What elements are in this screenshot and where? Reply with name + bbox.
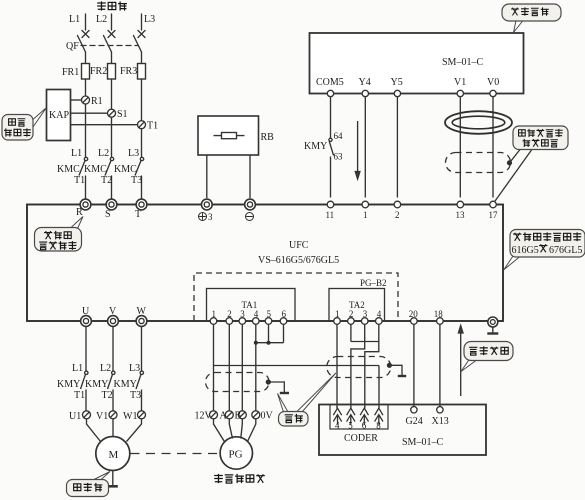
terminal minus: [245, 199, 256, 210]
svg-text:5: 5: [348, 421, 353, 431]
CODER pin 6 arrows: [360, 408, 368, 424]
wire L2 vertical top: [111, 14, 113, 198]
breaker QF pole 3 x-mark: [138, 31, 145, 38]
signal direction arrow (up): [460, 333, 462, 396]
contactor KMC pole 3: [140, 157, 143, 160]
wire TA1-4 to 0V: [255, 325, 257, 411]
terminal Y5: [394, 90, 400, 96]
svg-text:PG: PG: [229, 449, 243, 461]
wire V1 to motor: [112, 419, 114, 437]
breaker QF pole 1 blade: [78, 36, 86, 53]
svg-text:T1: T1: [74, 390, 85, 401]
svg-text:R1: R1: [91, 96, 103, 107]
svg-text:T: T: [135, 209, 141, 220]
svg-text:PG–B2: PG–B2: [360, 278, 387, 288]
svg-text:QF: QF: [66, 41, 79, 52]
callout 电动机 (motor): [67, 472, 111, 497]
svg-text:S1: S1: [117, 109, 128, 120]
terminal TA1-2: [226, 318, 233, 325]
tap R1 circle: [82, 96, 90, 104]
svg-text:VS–616G5/676GL5: VS–616G5/676GL5: [258, 255, 339, 266]
motor ground wire: [112, 471, 114, 486]
wire KMY to W1 connector: [141, 390, 143, 411]
svg-text:Y4: Y4: [359, 77, 371, 88]
svg-text:M: M: [109, 449, 119, 461]
connector A circle: [225, 411, 233, 419]
svg-text:63: 63: [334, 152, 344, 162]
breaker QF pole 1 x-mark: [82, 31, 89, 38]
svg-text:Y5: Y5: [391, 77, 403, 88]
connector U1 circle: [83, 411, 91, 419]
wire L3 vertical top: [141, 14, 143, 198]
terminal TA1-5: [265, 318, 272, 325]
svg-text:L1: L1: [69, 14, 80, 25]
wire Y4 to 1: [364, 97, 366, 198]
terminal 2: [394, 201, 401, 208]
svg-text:8: 8: [376, 421, 381, 431]
connector W1 circle: [138, 411, 146, 419]
shield stadium (dashed) around V1 V0: [446, 150, 532, 203]
svg-text:CODER: CODER: [344, 433, 378, 444]
shield TA2 ground hook: [389, 365, 402, 375]
svg-text:64: 64: [334, 131, 344, 141]
label 主电源 (main power): [97, 1, 127, 10]
connector TA2 box: [329, 289, 385, 322]
svg-text:T1: T1: [147, 121, 158, 132]
terminal V1: [457, 90, 463, 96]
wire TA2-3 drop and jog: [351, 325, 365, 409]
junction dot TA1-5: [267, 341, 271, 345]
svg-text:COM5: COM5: [316, 77, 344, 88]
terminal TA1-4: [253, 318, 260, 325]
breaker QF linkage (dashed): [81, 45, 138, 47]
terminal TA1-1: [210, 318, 217, 325]
CODER pin 8 arrows: [375, 408, 383, 424]
thermal relay FR1: [82, 64, 90, 80]
terminal TA2-1: [334, 318, 341, 325]
tap S1 circle: [108, 109, 116, 117]
svg-text:KMY: KMY: [57, 379, 80, 390]
junction bus 4-5-6: [256, 342, 284, 344]
terminal G24: [411, 407, 417, 413]
svg-text:676GL5: 676GL5: [549, 245, 582, 256]
svg-text:L2: L2: [98, 148, 109, 159]
svg-text:W1: W1: [123, 411, 137, 422]
svg-text:KAP: KAP: [49, 110, 69, 121]
contactor KMY pole 1: [85, 371, 88, 374]
callout 屏蔽 (shield): [278, 373, 337, 426]
svg-text:2: 2: [395, 210, 400, 220]
wire W1 to motor: [127, 419, 142, 442]
wire TA1-2 to A: [228, 325, 230, 411]
svg-text:0V: 0V: [261, 411, 274, 422]
CODER pin 5 arrows: [347, 408, 355, 424]
wire 18 to X13: [439, 325, 441, 407]
tap T1 circle: [138, 121, 146, 129]
terminal V0: [490, 90, 496, 96]
svg-text:12V: 12V: [195, 411, 213, 422]
shield TA2 drain dot: [387, 363, 392, 368]
shield stadium TA1 (dashed): [206, 373, 290, 394]
connector 0V circle: [252, 411, 260, 419]
terminal W: [136, 316, 147, 327]
terminal 1: [362, 201, 369, 208]
contactor KMY pole 2: [112, 371, 115, 374]
wire TA2-2 drop: [350, 325, 352, 342]
callout 变频器的型号是 616G5或676GL5 (inverter model): [504, 230, 585, 270]
terminal +3: [201, 199, 212, 210]
callout 信号方向 (signal direction): [461, 342, 513, 372]
shield drain wire (long horizontal): [214, 365, 380, 367]
ground symbol at PE: [492, 327, 494, 333]
signal direction arrow (down): [357, 121, 359, 172]
svg-text:FR1: FR1: [62, 67, 79, 78]
resistor box RB: [198, 116, 259, 155]
terminal S: [106, 199, 117, 210]
svg-text:RB: RB: [261, 132, 275, 143]
svg-text:L3: L3: [144, 14, 155, 25]
wire KAP to S1 tap: [71, 112, 108, 114]
label minus : circled minus: [246, 213, 254, 221]
wire U1 to motor: [87, 419, 101, 442]
wire L1 vertical top: [85, 14, 87, 198]
terminal TA1-6: [280, 318, 287, 325]
wire COM5 to 11 upper: [330, 97, 332, 138]
svg-text:L2: L2: [100, 363, 111, 374]
svg-text:616G5: 616G5: [512, 245, 539, 256]
encoder PG circle: [220, 437, 252, 469]
svg-text:T2: T2: [101, 175, 112, 186]
terminal V: [108, 316, 119, 327]
svg-text:U1: U1: [69, 411, 81, 422]
connector 12V circle: [210, 411, 218, 419]
wire V to KMY contact: [112, 327, 114, 372]
svg-text:KMC: KMC: [114, 164, 137, 175]
thermal relay FR2: [108, 64, 116, 80]
inverter UFC main box: [27, 205, 503, 322]
wire A to PG: [229, 419, 232, 439]
terminal 18: [437, 318, 444, 325]
terminal T: [136, 199, 147, 210]
motor M circle: [96, 437, 130, 471]
label 速度编码器 (speed encoder): [214, 474, 265, 483]
wire U to KMY contact: [85, 327, 87, 372]
terminal U: [81, 316, 92, 327]
svg-text:3: 3: [208, 212, 213, 222]
wire 12V to PG: [214, 419, 226, 443]
callout 控制系统 (control system): [502, 4, 561, 33]
breaker QF pole 2 blade: [104, 36, 112, 53]
wire W to KMY contact: [141, 327, 143, 372]
wire 20 to G24: [413, 325, 415, 407]
breaker QF pole 2 x-mark: [108, 31, 115, 38]
wire TA1-6 drop: [283, 325, 285, 343]
svg-text:A: A: [220, 411, 228, 422]
svg-text:KMY: KMY: [304, 141, 327, 152]
terminal TA1-3: [239, 318, 246, 325]
option card PG-B2 dashed outline: [194, 273, 398, 321]
wire KAP to T1 tap: [71, 124, 138, 126]
svg-text:FR3: FR3: [120, 66, 137, 77]
resistor element inside RB: [222, 133, 237, 139]
wire TA2-1 to CODER 4: [336, 325, 338, 409]
terminal R: [80, 199, 91, 210]
shield stadium TA2 (dashed): [327, 357, 406, 378]
contact KMY 64-63: [329, 138, 332, 141]
relay KAP box: [47, 90, 71, 141]
svg-text:X13: X13: [432, 416, 449, 427]
svg-text:KMC: KMC: [57, 164, 80, 175]
svg-text:SM–01–C: SM–01–C: [442, 57, 483, 68]
callout tail to shield dot: [510, 150, 521, 163]
svg-text:FR2: FR2: [90, 66, 107, 77]
svg-text:UFC: UFC: [289, 240, 309, 251]
wire TA1-5 drop: [268, 325, 270, 343]
svg-text:L2: L2: [96, 14, 107, 25]
terminal 13: [457, 201, 464, 208]
label +3 : circled plus and 3: [199, 213, 207, 221]
terminal 11: [327, 201, 334, 208]
wire TA1-3 to B: [241, 325, 243, 411]
svg-text:L1: L1: [72, 363, 83, 374]
connector B circle: [238, 411, 246, 419]
terminal PE ground: [488, 317, 498, 327]
shield TA1 drain dot: [266, 379, 271, 384]
svg-text:KMC: KMC: [84, 164, 107, 175]
svg-text:L3: L3: [129, 363, 140, 374]
svg-text:1: 1: [363, 210, 368, 220]
wire Y5 to 2: [396, 97, 398, 198]
callout 相序继电器 (phase sequence relay): [2, 108, 47, 141]
svg-text:11: 11: [326, 210, 335, 220]
svg-text:T3: T3: [131, 175, 142, 186]
svg-text:T2: T2: [102, 390, 113, 401]
connector V1 circle: [109, 411, 117, 419]
terminal 17: [490, 201, 497, 208]
svg-text:L1: L1: [71, 148, 82, 159]
wire RB to terminal minus: [249, 155, 251, 198]
svg-text:V1: V1: [96, 411, 108, 422]
contactor KMC pole 2: [110, 157, 113, 160]
terminal TA2-2: [348, 318, 355, 325]
shield TA1 ground hook: [268, 382, 284, 392]
wire TA2-2/4 jog down: [365, 342, 379, 409]
wire 0V to PG: [248, 419, 256, 442]
terminal TA2-3: [361, 318, 368, 325]
svg-text:G24: G24: [406, 416, 423, 427]
wire B to PG: [241, 419, 243, 439]
wire KMY to V1 connector: [112, 390, 114, 411]
callout 电线外壳屏蔽并接地 (cable shield grounded): [513, 126, 568, 150]
svg-text:KMY: KMY: [85, 379, 108, 390]
terminal X13: [437, 407, 443, 413]
breaker QF pole 3 blade: [134, 36, 142, 53]
wire KAP to R1 tap: [71, 99, 82, 101]
wire RB to terminal +3: [206, 155, 208, 198]
svg-text:6: 6: [362, 421, 367, 431]
bus TA2-2 to TA2-4: [351, 341, 379, 343]
svg-text:T3: T3: [130, 390, 141, 401]
junction dot TA1-4: [254, 341, 258, 345]
thermal relay FR3: [138, 64, 146, 80]
wire TA2-4 drop: [378, 325, 380, 342]
terminal TA2-4: [376, 318, 383, 325]
svg-text:4: 4: [335, 421, 340, 431]
wire TA1-1 to 12V: [213, 325, 215, 411]
svg-text:L3: L3: [128, 148, 139, 159]
terminal Y4: [362, 90, 368, 96]
coupling M to PG (dashed): [131, 453, 220, 455]
drain wire drop to CODER pin 8: [378, 366, 380, 409]
contactor KMC pole 1: [84, 157, 87, 160]
svg-text:B: B: [235, 411, 242, 422]
svg-text:V0: V0: [487, 77, 499, 88]
svg-text:V1: V1: [454, 77, 466, 88]
connector CODER box: [330, 405, 388, 430]
wire COM5 to 11 lower: [330, 157, 332, 198]
shield drain dot: [507, 160, 512, 165]
svg-text:R: R: [76, 207, 83, 218]
contactor KMY pole 3: [140, 371, 143, 374]
wire KMY to U1 connector: [85, 390, 87, 411]
controller SM-01-C bottom box: [319, 405, 486, 456]
svg-text:T1: T1: [74, 175, 85, 186]
connector TA1 box: [207, 289, 296, 322]
terminal 20: [411, 318, 418, 325]
controller SM-01-C top box: [310, 33, 524, 94]
callout 变频器输入端子 (inverter input terminals): [35, 217, 84, 252]
shield ring (double ellipse): [445, 111, 512, 134]
svg-text:S: S: [105, 209, 111, 220]
tail line from terminal 17 to callout: [494, 150, 532, 203]
svg-text:17: 17: [489, 210, 499, 220]
CODER pin 4 arrows: [333, 408, 341, 424]
wire V1 to 13: [459, 97, 461, 198]
wire V0 to 17: [492, 97, 494, 198]
svg-text:13: 13: [456, 210, 466, 220]
motor ground bar: [108, 485, 118, 488]
terminal COM5: [327, 90, 333, 96]
svg-text:SM–01–C: SM–01–C: [402, 437, 443, 448]
svg-text:KMY: KMY: [114, 379, 137, 390]
